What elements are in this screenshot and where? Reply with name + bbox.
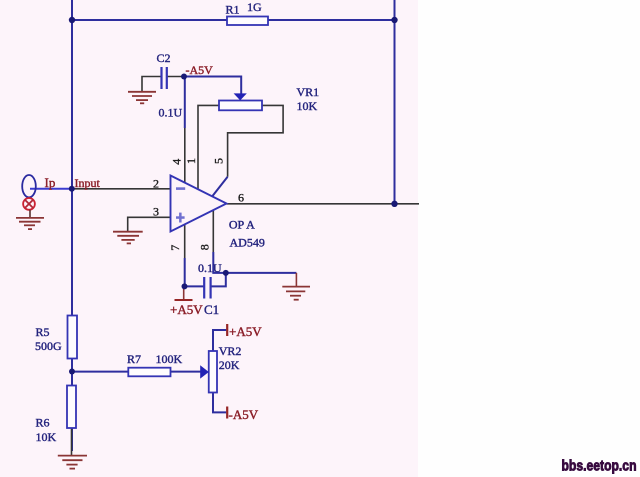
svg-text:C1: C1 xyxy=(204,302,219,317)
power label +A5V at VR2 xyxy=(229,324,262,339)
ground under R6 xyxy=(58,456,87,469)
wire: left vertical rail xyxy=(71,0,73,451)
svg-text:500G: 500G xyxy=(35,339,62,353)
wire: C2 left lead to ground xyxy=(142,77,162,93)
svg-text:2: 2 xyxy=(153,177,159,191)
node: -A5V junction xyxy=(181,74,187,80)
svg-text:10K: 10K xyxy=(297,99,318,113)
capacitor C2 xyxy=(157,51,183,120)
wire: R5/R6 node to R7 xyxy=(72,371,128,373)
wire: C1 left lead xyxy=(184,285,204,287)
wire: VR1 left lead to pin 1 xyxy=(198,105,219,189)
potentiometer VR2 xyxy=(200,344,241,393)
svg-text:VR2: VR2 xyxy=(219,344,242,358)
svg-text:4: 4 xyxy=(170,159,184,165)
wire: R7 to VR2 wiper arrow xyxy=(171,371,201,373)
svg-text:OP A: OP A xyxy=(229,218,255,232)
svg-text:3: 3 xyxy=(153,205,159,219)
wire: pin 3 to ground xyxy=(128,217,171,232)
node: input junction xyxy=(69,186,75,192)
svg-text:+A5V: +A5V xyxy=(170,302,203,317)
wire: VR2 top lead to +A5V xyxy=(213,330,226,351)
svg-text:+A5V: +A5V xyxy=(229,324,262,339)
pin number 3 xyxy=(153,205,159,219)
op-amp U1 AD549 xyxy=(171,176,265,250)
svg-text:7: 7 xyxy=(168,245,182,251)
svg-text:AD549: AD549 xyxy=(230,236,265,250)
node: C1/ground junction xyxy=(223,270,229,276)
svg-text:5: 5 xyxy=(212,158,226,164)
ground under C2 xyxy=(128,92,156,104)
power label +A5V at pin 7 xyxy=(170,302,203,317)
pin number 1 (rotated) xyxy=(184,158,198,164)
scanned schematic pink background xyxy=(0,0,418,477)
resistor R7 xyxy=(127,352,183,376)
pin number 2 xyxy=(153,177,159,191)
net label Ip xyxy=(45,175,56,190)
svg-text:R6: R6 xyxy=(36,416,50,430)
node: top-right junction xyxy=(391,17,397,23)
watermark bbs.eetop.cn xyxy=(562,458,637,475)
svg-text:-A5V: -A5V xyxy=(186,63,214,77)
svg-text:100K: 100K xyxy=(156,352,183,366)
node: output junction xyxy=(391,201,397,207)
svg-text:0.1U: 0.1U xyxy=(159,106,183,120)
svg-text:8: 8 xyxy=(197,244,211,250)
svg-text:R7: R7 xyxy=(127,352,141,366)
wire: C2 right lead to -A5V node xyxy=(167,76,184,78)
wire: right vertical rail to output xyxy=(394,0,396,204)
pin number 8 (rotated) xyxy=(197,244,211,250)
svg-text:R5: R5 xyxy=(36,325,50,339)
wire: -A5V net to VR1 wiper xyxy=(184,77,241,94)
svg-text:1: 1 xyxy=(184,158,198,164)
wire: input source to node xyxy=(30,188,72,190)
svg-text:-A5V: -A5V xyxy=(229,407,259,422)
wire: VR2 bottom lead to -A5V xyxy=(213,393,226,413)
no-ERC red cross marker xyxy=(23,198,35,218)
node: top-left junction xyxy=(69,17,75,23)
svg-text:R1: R1 xyxy=(226,3,240,17)
capacitor C1 xyxy=(198,261,222,317)
power +A5V at VR2 (bar) xyxy=(226,324,228,336)
svg-text:C2: C2 xyxy=(157,51,171,65)
ground at pin 3 xyxy=(113,232,143,244)
wire: pin 8 down and to ground xyxy=(213,210,296,287)
current source symbol (probe) xyxy=(22,175,36,197)
potentiometer VR1 xyxy=(219,85,319,113)
svg-text:20K: 20K xyxy=(219,358,240,372)
wire: -A5V node down to pin 4 xyxy=(184,77,186,183)
wire: pin 7 down to +A5V / C1 node xyxy=(184,225,186,287)
svg-text:10K: 10K xyxy=(36,430,57,444)
resistor R1 xyxy=(226,0,269,25)
net label Input xyxy=(75,176,101,190)
svg-text:bbs.eetop.cn: bbs.eetop.cn xyxy=(562,458,637,475)
wire: op-amp output pin 6 to right xyxy=(227,203,420,205)
net label -A5V xyxy=(186,63,214,77)
wire: C1 right lead up to pin-8 net xyxy=(211,273,226,287)
svg-text:0.1U: 0.1U xyxy=(198,261,222,275)
svg-text:Ip: Ip xyxy=(45,175,56,190)
resistor R5 xyxy=(35,316,77,359)
pin number 6 xyxy=(238,191,244,205)
svg-text:VR1: VR1 xyxy=(297,85,320,99)
wire: VR1 right lead to pin 5 xyxy=(212,105,283,196)
wire: top horizontal net from left rail to right rail xyxy=(71,19,395,21)
svg-text:6: 6 xyxy=(238,191,244,205)
power +A5V at pin 7 xyxy=(175,286,193,300)
wire: R6 to ground xyxy=(71,428,73,456)
pin number 5 (rotated) xyxy=(212,158,226,164)
ground right of C1 xyxy=(282,287,310,300)
pin number 4 (rotated) xyxy=(170,159,184,165)
node: R5/R6/R7 junction xyxy=(69,369,75,375)
power label -A5V at VR2 xyxy=(229,407,259,422)
resistor R6 xyxy=(36,386,77,445)
ground under input source xyxy=(16,218,44,229)
wire: input node to pin 2 xyxy=(72,188,171,190)
svg-text:Input: Input xyxy=(75,176,101,190)
pin number 7 (rotated) xyxy=(168,245,182,251)
power -A5V at VR2 (bar) xyxy=(226,407,228,419)
svg-text:1G: 1G xyxy=(247,0,262,14)
node: pin7 +A5V junction xyxy=(182,283,188,289)
